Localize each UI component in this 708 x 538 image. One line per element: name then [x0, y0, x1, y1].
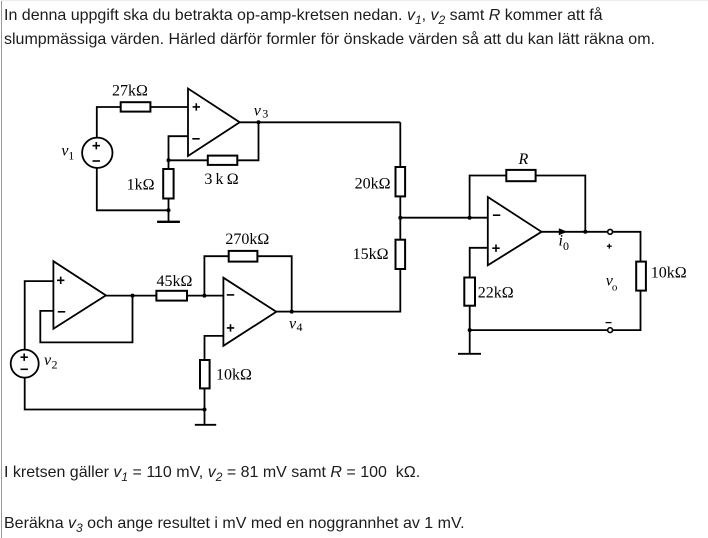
- wire v2 bottom rail: [25, 378, 205, 410]
- ground 2: [195, 410, 216, 425]
- wire v3 output line: [240, 121, 401, 123]
- node junction B: [167, 208, 171, 212]
- label v2: [44, 352, 58, 372]
- label v4: [289, 315, 303, 333]
- wire U3 plus input to 10k: [205, 336, 224, 360]
- wire junction to 3k: [169, 159, 208, 161]
- resistor R: [506, 170, 535, 181]
- wire buffer output to 45k: [106, 295, 156, 297]
- resistor R 270k: [229, 251, 258, 262]
- svg-text:R: R: [518, 151, 529, 168]
- svg-text:o: o: [612, 281, 618, 293]
- label v1: [61, 142, 74, 162]
- terminal minus: [608, 328, 613, 333]
- wire 1k bottom to rail: [168, 199, 170, 211]
- wire buffer feedback: [40, 295, 132, 342]
- resistor R 3k: [208, 156, 238, 165]
- wire 270k to v4 node: [257, 256, 291, 311]
- wire 10k to rail: [204, 388, 206, 409]
- node junction D: [131, 294, 135, 298]
- svg-text:20kΩ: 20kΩ: [355, 176, 391, 193]
- svg-text:3 k Ω: 3 k Ω: [204, 171, 238, 188]
- wire U4 output to terminal: [542, 231, 608, 233]
- current arrow i0: [559, 228, 568, 235]
- wire v1 bottom rail: [97, 168, 169, 210]
- wire 15k bottom to v4 node: [292, 269, 401, 312]
- resistor R 10k load: [636, 262, 646, 291]
- wire node G up to R: [470, 176, 507, 218]
- svg-text:0: 0: [563, 239, 569, 253]
- wire bottom rail to node I: [470, 329, 608, 331]
- resistor R 20k: [396, 167, 406, 196]
- wire R to output node: [536, 176, 586, 232]
- ground 3: [458, 353, 481, 355]
- svg-text:2: 2: [52, 358, 58, 372]
- wire terminal to 10k load: [613, 232, 641, 262]
- label vo: [606, 272, 618, 293]
- resistor R 27k: [121, 102, 151, 111]
- wire U3 output to v4 node: [276, 311, 291, 313]
- resistor R 15k: [396, 240, 406, 269]
- wire 20k to 15k: [399, 196, 401, 239]
- wire 10k load to minus terminal: [613, 291, 641, 331]
- wire v1 top to 27k: [97, 107, 121, 138]
- svg-text:15kΩ: 15kΩ: [353, 246, 389, 263]
- svg-text:1: 1: [68, 149, 74, 163]
- label minus: [606, 322, 612, 324]
- node v3: [257, 120, 261, 124]
- node junction G: [468, 216, 472, 220]
- node junction A: [167, 158, 171, 162]
- svg-text:3: 3: [262, 107, 268, 121]
- label v3: [254, 103, 268, 121]
- svg-text:45kΩ: 45kΩ: [156, 273, 192, 290]
- wire v3 line down to 20k: [399, 122, 401, 167]
- resistor R 1k: [163, 169, 173, 199]
- wire 22k to ground: [469, 306, 471, 354]
- ground: [157, 210, 180, 222]
- op-amp U1: [188, 89, 240, 157]
- node junction C: [398, 216, 402, 220]
- wire node C to U4 minus input: [400, 217, 488, 219]
- wire node E up to 270k: [204, 256, 228, 295]
- label i0: [559, 233, 570, 254]
- svg-text:22kΩ: 22kΩ: [478, 285, 514, 302]
- svg-text:1kΩ: 1kΩ: [127, 177, 155, 194]
- wire v2 top to buffer plus input: [25, 281, 54, 350]
- wire 45k to U3 minus input: [187, 295, 223, 297]
- label plus: [607, 244, 612, 249]
- voltage source V2: [11, 350, 39, 378]
- wire U4 plus input to 22k: [470, 248, 488, 278]
- svg-text:10kΩ: 10kΩ: [216, 367, 252, 384]
- svg-text:27kΩ: 27kΩ: [112, 83, 148, 100]
- voltage source V1: [82, 138, 112, 168]
- op-amp U3: [223, 278, 276, 346]
- wire 27k to op-amp U1 plus input: [150, 106, 188, 108]
- wire U1 minus input to 1k top: [169, 136, 189, 169]
- wire 3k to output v3: [237, 122, 258, 160]
- node junction F: [203, 408, 207, 412]
- op-amp U4: [488, 197, 542, 265]
- svg-text:10kΩ: 10kΩ: [651, 264, 687, 281]
- node v4: [290, 310, 294, 314]
- node junction H: [583, 230, 587, 234]
- node junction I: [468, 328, 472, 332]
- resistor R 22k: [464, 278, 475, 306]
- resistor R 10k bottom: [200, 360, 210, 388]
- resistor R 45k: [156, 291, 187, 301]
- terminal plus: [608, 229, 613, 234]
- svg-text:v: v: [254, 103, 262, 120]
- svg-text:270kΩ: 270kΩ: [225, 231, 269, 248]
- svg-text:4: 4: [297, 320, 303, 334]
- node junction E: [202, 294, 206, 298]
- op-amp U2 buffer: [53, 261, 106, 329]
